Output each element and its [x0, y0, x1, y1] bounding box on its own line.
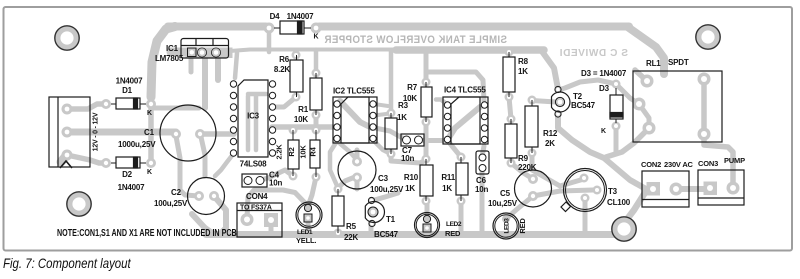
wire: CON4 pad to band C	[269, 227, 274, 234]
wire: T2 emitter diagonal to CON2	[558, 114, 652, 189]
diode D1	[111, 98, 146, 109]
svg-text:SPDT: SPDT	[668, 58, 689, 67]
wire: IC2 pin 4 to R5 top	[330, 141, 338, 188]
svg-text:R7: R7	[407, 83, 418, 92]
pads C1	[171, 129, 181, 139]
diode D4	[274, 21, 311, 34]
svg-text:100u,25V: 100u,25V	[154, 199, 188, 208]
svg-text:T1: T1	[386, 215, 396, 224]
svg-text:K: K	[147, 110, 152, 117]
pads T3	[580, 174, 589, 183]
resistor R4	[310, 130, 320, 177]
pads CON1	[62, 104, 73, 115]
pads D4	[264, 23, 275, 34]
svg-text:74LS08: 74LS08	[240, 160, 268, 169]
capacitor C1	[160, 105, 216, 161]
capacitor C6	[476, 151, 489, 174]
wire: relay bottom-left out	[606, 128, 649, 157]
wire: IC1 square pad down	[189, 58, 194, 72]
pads T2	[554, 86, 561, 93]
pads C2	[194, 191, 204, 201]
wire: relay coil vertical	[701, 79, 707, 134]
wire: R3 top to band B	[389, 51, 394, 113]
svg-text:RED: RED	[445, 229, 461, 238]
svg-text:T2: T2	[573, 92, 583, 101]
wire: R7 branch to IC4 pin 8	[426, 72, 484, 101]
wire: R7 top to band B	[424, 51, 429, 82]
transistor T2	[552, 86, 570, 117]
svg-text:RL1: RL1	[646, 59, 661, 68]
pads D3	[612, 80, 621, 89]
svg-text:D4: D4	[270, 12, 281, 21]
svg-text:1K: 1K	[442, 184, 452, 193]
wire: R1 bottom down	[314, 115, 319, 130]
wire: relay mid-left to bottom-left	[639, 104, 649, 128]
capacitor C5	[515, 170, 552, 207]
svg-text:CL100: CL100	[607, 198, 631, 207]
connector CON1	[49, 97, 90, 168]
pads C5	[528, 174, 538, 184]
svg-text:220K: 220K	[518, 163, 537, 172]
pads R1	[312, 69, 321, 78]
wire: R9 bottom to C5	[511, 163, 533, 179]
wire: R5 top to C3	[338, 177, 355, 188]
wire: IC4 pin 1 stub	[436, 100, 448, 106]
wire: LED2 anode up to R10	[425, 201, 430, 219]
wire: rail corner to T2 top	[541, 50, 558, 89]
wire: IC1 gnd pad down	[215, 56, 221, 80]
pads R3	[387, 109, 396, 118]
svg-text:R5: R5	[346, 222, 357, 231]
wire: trace under IC2	[340, 101, 372, 128]
svg-text:R2: R2	[287, 147, 296, 156]
svg-text:D2: D2	[122, 170, 133, 179]
resistor R10	[420, 159, 433, 201]
wire: C3 bottom stub	[355, 177, 360, 189]
wire: C1 right pad down to C2 top	[201, 137, 205, 176]
mounting hole top-right	[696, 25, 720, 49]
wire: R6 top to band A	[294, 50, 298, 55]
svg-text:1000u,25V: 1000u,25V	[118, 140, 156, 149]
relay RL1	[633, 71, 722, 142]
wire: R4 bottom to LED1	[308, 177, 316, 206]
wire: 5V rail stub	[151, 106, 199, 111]
wire: R6 bottom to IC3	[273, 97, 296, 107]
svg-text:1N4007: 1N4007	[116, 77, 144, 86]
resistor R12	[525, 100, 538, 153]
transistor T1	[365, 197, 384, 226]
pads LED1 LED2 LED3 anodes	[304, 204, 312, 212]
diode D3	[610, 88, 623, 123]
capacitor C7	[401, 134, 424, 146]
wire: R1 top to band A	[314, 50, 319, 73]
wire: rail thick right part	[396, 46, 544, 54]
regulator IC1 LM7805	[181, 39, 229, 59]
svg-text:R4: R4	[309, 146, 318, 156]
svg-text:10K: 10K	[403, 94, 417, 103]
capacitor C4	[242, 174, 267, 187]
pads R6	[292, 51, 301, 60]
svg-text:C5: C5	[500, 189, 511, 198]
wire: signal rail thin	[230, 50, 398, 52]
svg-text:C6: C6	[476, 176, 487, 185]
LED1	[296, 202, 322, 228]
LED2	[415, 213, 440, 238]
svg-text:2.2K: 2.2K	[275, 144, 284, 160]
wire: C5 minus to T3 base	[533, 190, 593, 196]
svg-text:CON4: CON4	[246, 192, 268, 201]
wire: C1 to IC3	[200, 131, 234, 137]
svg-text:SIMPLE TANK OVERFLOW STOPPER: SIMPLE TANK OVERFLOW STOPPER	[324, 35, 507, 47]
wire: CON1 mid pad to C1	[70, 129, 176, 136]
pads D1	[101, 99, 111, 109]
wire: D3 anode to T2	[558, 80, 616, 90]
wire: T3 emitter to band C	[583, 201, 588, 232]
wire: rail over R2 R4	[272, 124, 337, 130]
mounting hole top-left	[55, 26, 79, 50]
mounting hole bottom-right	[612, 217, 636, 241]
svg-text:C1: C1	[144, 128, 155, 137]
svg-text:PUMP: PUMP	[724, 156, 745, 165]
wire: IC2 pin 5 to R3 bottom	[373, 140, 391, 154]
svg-text:R6: R6	[279, 55, 290, 64]
svg-text:K: K	[601, 128, 606, 135]
pads R9	[507, 115, 516, 124]
resistor R8	[503, 52, 515, 97]
timer IC4 TLC555	[443, 97, 488, 144]
svg-text:1N4007: 1N4007	[118, 183, 146, 192]
wire: IC1 out pad down	[202, 56, 208, 108]
pads R7	[422, 78, 431, 87]
wire: relay NO to CON3	[704, 137, 733, 188]
wire: CON1 top pad to D1	[67, 104, 106, 109]
transistor T3	[561, 169, 607, 212]
svg-text:D1: D1	[122, 86, 133, 95]
resistor R3	[385, 113, 397, 154]
resistor R7	[421, 82, 432, 122]
wire: R7 R10 link	[424, 122, 429, 159]
svg-text:D3: D3	[599, 84, 610, 93]
pads R5	[334, 185, 343, 194]
pads D2	[101, 158, 111, 168]
wire: trace under IC4	[448, 107, 480, 139]
wire: relay top-left pad stub	[635, 70, 647, 81]
svg-text:NOTE:CON1,S1 AND X1 ARE NOT IN: NOTE:CON1,S1 AND X1 ARE NOT INCLUDED IN …	[57, 227, 237, 239]
wire: C3 top stub	[355, 150, 360, 161]
svg-text:C2: C2	[171, 188, 182, 197]
wire: band B stub to IC3	[235, 53, 237, 78]
svg-text:CON3: CON3	[698, 159, 718, 168]
wire: R8 bottom to R9	[509, 97, 511, 119]
svg-text:K: K	[147, 169, 152, 176]
svg-text:Fig. 7: Component layout: Fig. 7: Component layout	[3, 255, 132, 272]
svg-text:100u,25V: 100u,25V	[370, 185, 404, 194]
svg-text:BC547: BC547	[374, 230, 399, 239]
diode D2	[111, 157, 146, 168]
wire: T1 emitter to band C	[369, 223, 374, 234]
svg-text:10n: 10n	[269, 179, 282, 188]
pads R8	[505, 48, 514, 57]
svg-text:1K: 1K	[397, 113, 407, 122]
svg-text:RED: RED	[518, 218, 527, 234]
svg-text:10K: 10K	[294, 115, 308, 124]
svg-text:1K: 1K	[405, 184, 415, 193]
pads CON2	[670, 183, 683, 196]
pads CON3	[727, 182, 740, 195]
svg-text:T3: T3	[608, 187, 618, 196]
wire: R2 bottom to C4	[261, 170, 293, 180]
svg-text:12V - 0 - 12V: 12V - 0 - 12V	[93, 112, 100, 151]
svg-text:BC547: BC547	[571, 101, 596, 110]
wire: C2 area diagonal	[192, 214, 212, 233]
wire: C6 bottom to band C	[480, 170, 485, 234]
wire: band C rise to CON2	[616, 189, 653, 234]
wire: D1 cathode vertical	[148, 96, 154, 163]
wire: LED1 cathode to band C	[306, 220, 311, 234]
wire: IC3 bottom-left diagonal	[215, 153, 234, 176]
wire: C7 left to IC2	[375, 128, 406, 140]
pads RL1	[641, 75, 654, 88]
svg-text:TO FS37A: TO FS37A	[240, 205, 272, 212]
resistor R5	[332, 189, 344, 233]
svg-text:2K: 2K	[545, 139, 555, 148]
copper pour at IC1	[151, 27, 175, 98]
connector CON3	[698, 170, 744, 205]
LED3	[493, 213, 519, 239]
svg-text:230V AC: 230V AC	[664, 160, 694, 169]
svg-text:R10: R10	[404, 173, 419, 182]
svg-text:K: K	[314, 34, 319, 41]
svg-text:YELL.: YELL.	[296, 236, 316, 245]
svg-text:IC1: IC1	[166, 44, 179, 53]
timer IC2 TLC555	[333, 97, 377, 143]
wire: CON1 bottom pad to D2	[67, 155, 106, 163]
resistor R11	[456, 157, 468, 201]
svg-text:IC3: IC3	[247, 112, 260, 121]
svg-text:10u,25V: 10u,25V	[488, 199, 518, 208]
svg-text:8.2K: 8.2K	[274, 65, 291, 74]
capacitor C2	[188, 178, 225, 215]
wire: top rail band A left of D4	[168, 23, 266, 31]
svg-text:R12: R12	[543, 129, 558, 138]
svg-text:10K: 10K	[299, 145, 308, 159]
wire: C1 left pad down to C2	[176, 136, 199, 196]
resistor R2	[288, 130, 299, 176]
svg-text:1N4007: 1N4007	[287, 12, 315, 21]
op IC3 74LS08	[230, 80, 275, 157]
pad drill holes (white centers)	[65, 107, 70, 112]
svg-text:R1: R1	[298, 105, 309, 114]
wire: T1 base up right	[371, 193, 398, 201]
svg-text:R11: R11	[441, 173, 455, 182]
wire: IC2 pin 4 to C3 plus	[337, 141, 357, 160]
resistor R1	[310, 73, 322, 115]
svg-text:1K: 1K	[518, 67, 528, 76]
mounting hole bottom-left	[67, 192, 91, 216]
pads R11	[457, 153, 466, 162]
capacitor C3	[338, 151, 376, 189]
connector CON4	[237, 203, 282, 237]
wire: D3 anode to relay	[616, 84, 639, 104]
wire: band A corner to relay	[627, 27, 664, 75]
pads C3	[352, 157, 362, 167]
pads R12	[528, 96, 537, 105]
wire: C5 minus to LED3	[507, 196, 533, 218]
svg-text:22K: 22K	[344, 233, 358, 242]
resistor R6	[290, 55, 303, 97]
wire: R12 top to T2	[532, 101, 556, 103]
connector CON2	[642, 171, 689, 207]
resistor R9	[505, 119, 517, 163]
wire: R3 bottom to R10	[391, 154, 426, 163]
wire: LED2 cathode to band C	[425, 229, 430, 234]
wire: C6 top stub	[482, 146, 484, 157]
pads R2	[289, 126, 298, 135]
svg-text:IC4 TLC555: IC4 TLC555	[444, 86, 486, 95]
svg-text:10n: 10n	[401, 154, 414, 163]
svg-text:IC2 TLC555: IC2 TLC555	[333, 87, 375, 96]
svg-text:LED3: LED3	[504, 218, 511, 234]
wire: R11 top to IC4	[448, 141, 461, 157]
pads R10	[422, 155, 431, 164]
svg-text:LED1: LED1	[297, 229, 313, 236]
wire: C2 right down to band C	[214, 196, 226, 234]
svg-text:C3: C3	[378, 174, 389, 183]
wire: R12 bottom to T3	[532, 153, 584, 186]
svg-text:D3 = 1N4007: D3 = 1N4007	[581, 69, 627, 78]
wire: LED1 anode to CON4	[247, 190, 308, 219]
wire: C7 right to IC4	[419, 138, 446, 143]
wire: IC2 pin stubs right	[374, 104, 388, 106]
wire: R11 bottom to band C	[459, 201, 464, 234]
svg-text:CON2: CON2	[641, 160, 661, 169]
wire: bottom ground band C	[206, 231, 620, 238]
svg-text:R8: R8	[518, 57, 529, 66]
wire: top rail band A right of D4	[319, 23, 629, 31]
wire: CON2 to CON3 link	[678, 186, 708, 192]
wire: D4 anode down to band B	[267, 32, 272, 52]
svg-text:10n: 10n	[475, 185, 488, 194]
wire: traces under IC3	[246, 96, 251, 150]
wire: D3 cathode down	[614, 126, 619, 152]
pads R4	[312, 126, 321, 135]
pads CON4	[241, 213, 254, 226]
svg-text:S C DWIVEDI: S C DWIVEDI	[559, 48, 628, 59]
wire: CON1 bottom pad blob	[61, 156, 66, 162]
svg-text:LED2: LED2	[446, 221, 462, 228]
svg-text:LM7805: LM7805	[155, 54, 184, 63]
svg-text:R9: R9	[518, 154, 529, 163]
